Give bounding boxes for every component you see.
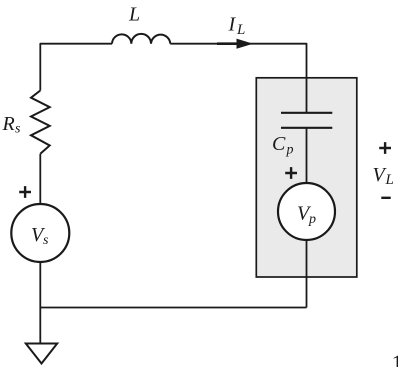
wire: V_p bottom through box to bottom wire xyxy=(306,240,308,308)
wire: top-left corner, from resistor top up and right to inductor xyxy=(40,44,112,91)
wire: inductor to top-right corner, down to capacitor xyxy=(170,44,306,113)
bottom wire xyxy=(40,307,306,309)
inductor L (three humps) xyxy=(112,34,170,44)
plus sign of V_s xyxy=(19,186,31,198)
wire: capacitor to V_p xyxy=(306,128,308,184)
current arrow shaft xyxy=(217,42,247,45)
current arrowhead xyxy=(237,39,252,48)
plus sign of V_p xyxy=(285,167,297,179)
svg-text:1: 1 xyxy=(392,351,398,367)
wire: V_s bottom to ground xyxy=(39,262,41,343)
svg-text:L: L xyxy=(385,172,394,188)
svg-text:L: L xyxy=(128,4,140,26)
svg-text:s: s xyxy=(43,233,49,248)
plus sign of V_L (right side) xyxy=(379,142,391,154)
svg-text:p: p xyxy=(286,143,294,158)
resistor R_s zigzag xyxy=(31,91,50,154)
wire: resistor to source V_s xyxy=(39,154,41,204)
source V_p circle xyxy=(278,183,335,240)
svg-text:R: R xyxy=(2,113,15,135)
ground symbol xyxy=(26,344,57,364)
source V_s circle xyxy=(11,204,69,262)
svg-text:I: I xyxy=(228,14,237,36)
svg-text:L: L xyxy=(236,22,245,38)
svg-text:s: s xyxy=(15,122,21,137)
svg-text:p: p xyxy=(308,212,316,227)
minus sign of V_L xyxy=(381,197,390,199)
parallel RC load box (shaded region) xyxy=(256,78,357,277)
capacitor C_p plates xyxy=(281,113,332,128)
svg-text:C: C xyxy=(272,133,286,155)
